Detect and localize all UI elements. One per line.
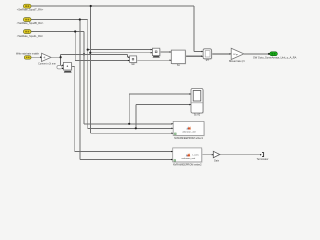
- svg-text:NVRAM/EEPROM writer1: NVRAM/EEPROM writer1: [174, 137, 203, 140]
- label for block D: [64, 71, 72, 73]
- block C: [170, 50, 187, 64]
- svg-text:unknown_unit: unknown_unit: [182, 130, 196, 133]
- node J4 tag2 to A.in1: [87, 49, 89, 51]
- wire: gain1 output net: [51, 54, 129, 65]
- wire: gain2 to goto tag: [244, 53, 268, 55]
- svg-text:-K-: -K-: [43, 56, 46, 59]
- wire: tag4 to gain1: [31, 56, 40, 58]
- svg-text:Write rate/rate enable: Write rate/rate enable: [16, 53, 40, 56]
- gain G2: [230, 48, 244, 59]
- node J5 tag3 junction: [74, 30, 76, 32]
- node J1 tag1 junction: [90, 5, 92, 7]
- wire: tag3 branch vertical x=75.2: [75, 32, 129, 61]
- svg-text:min: min: [131, 63, 136, 66]
- label for block A: [153, 56, 160, 58]
- from tag F4: [24, 56, 31, 60]
- goto tag GT1: [268, 52, 277, 56]
- wire: tag2 branch vertical x=79: [80, 20, 173, 160]
- wire: pill to D input2: [61, 67, 64, 69]
- scope block: [189, 89, 204, 114]
- svg-text:Convert n 2t mm: Convert n 2t mm: [38, 62, 56, 65]
- svg-text:unknown_unit: unknown_unit: [182, 157, 196, 160]
- wire: scope input 2 riser: [136, 105, 191, 129]
- block E: [201, 49, 212, 60]
- from tag F2: [23, 18, 31, 22]
- wire: gain3 to terminator: [220, 154, 260, 156]
- wire: tag1 branch vertical x=91: [90, 6, 172, 133]
- svg-text:NVRAM/EEPROM writer2: NVRAM/EEPROM writer2: [173, 164, 202, 167]
- wire: D output down to writer2: [72, 66, 173, 151]
- block B: [128, 56, 137, 63]
- svg-text:SW Goto_SomeArrays_Unit_u_A_RA: SW Goto_SomeArrays_Unit_u_A_RA: [253, 56, 297, 60]
- wire: E output to gain2: [212, 53, 231, 55]
- svg-text:RT: RT: [206, 59, 210, 62]
- svg-text:<SetRate_SpudL_RA>: <SetRate_SpudL_RA>: [17, 34, 44, 38]
- svg-text:Bitread rate (2 t: Bitread rate (2 t: [229, 60, 245, 63]
- node J3 tag2 junction: [79, 18, 81, 20]
- wire: tag3 net horizontal y=31.5: [31, 32, 173, 124]
- svg-text:Sc A2: Sc A2: [194, 113, 201, 116]
- wire: tag1 net horizontal y=6: [31, 6, 203, 52]
- block D: [62, 62, 72, 70]
- terminator T1: [260, 153, 264, 157]
- wire: tag2 net horizontal y=19.5: [31, 20, 173, 129]
- wire: B output to C input2: [137, 59, 171, 61]
- gain G3: [212, 151, 220, 157]
- writer block W1: [172, 121, 205, 136]
- wire: writer2 output to gain3: [202, 154, 213, 156]
- node J8 scope riser 1 junction: [128, 123, 130, 125]
- from tag F3: [23, 30, 31, 34]
- svg-text:<SetRate_SpudT_RA>: <SetRate_SpudT_RA>: [17, 8, 44, 12]
- node J6 gain line meets tag3 vertical: [83, 53, 85, 55]
- wire: C output to E input2: [186, 55, 203, 57]
- svg-text:Terminator: Terminator: [257, 158, 269, 161]
- writer block W2: [171, 148, 203, 163]
- gain G1: [40, 53, 51, 61]
- svg-text:1/Cgs: 1/Cgs: [233, 54, 238, 56]
- wire: scope input 1 riser: [129, 94, 190, 124]
- wire: A output to C input1: [160, 51, 171, 53]
- node J9 scope riser 2 junction: [135, 127, 137, 129]
- svg-text:Gain: Gain: [214, 159, 220, 162]
- node J2 tag1 branch to A.in2: [89, 52, 91, 54]
- svg-text:t_conv: t_conv: [192, 154, 200, 157]
- svg-text:<SetRate_SpudB_RA>: <SetRate_SpudB_RA>: [17, 21, 44, 25]
- node J7 gain output junction: [60, 56, 62, 58]
- from tag F1: [23, 4, 31, 8]
- from tag F5 (white pill): [57, 66, 62, 69]
- block A: [151, 48, 161, 56]
